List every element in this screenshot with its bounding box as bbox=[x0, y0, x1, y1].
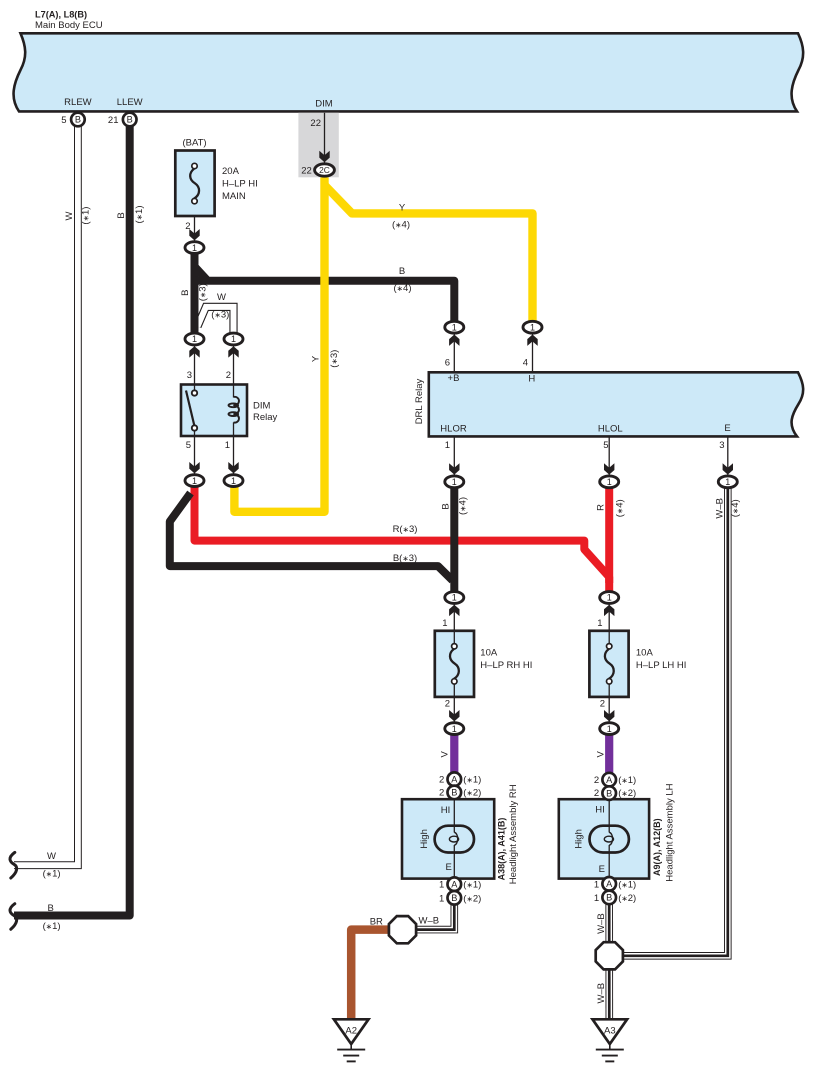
wire headlight RH internal bbox=[453, 799, 455, 832]
svg-text:W: W bbox=[64, 211, 75, 220]
svg-text:HLOL: HLOL bbox=[598, 424, 623, 435]
splice octagon RH bbox=[389, 916, 416, 943]
bulb High LH bbox=[590, 826, 629, 853]
wire RLEW stub bbox=[77, 111, 79, 120]
svg-text:Main Body ECU: Main Body ECU bbox=[35, 20, 103, 31]
svg-text:6: 6 bbox=[445, 358, 450, 369]
svg-text:H–LP LH HI: H–LP LH HI bbox=[636, 660, 687, 671]
svg-text:1: 1 bbox=[597, 618, 602, 629]
svg-text:(∗1): (∗1) bbox=[81, 207, 92, 225]
arrow into junction above +B bbox=[449, 335, 459, 346]
svg-text:B: B bbox=[127, 115, 133, 125]
svg-text:V: V bbox=[439, 750, 450, 757]
arrow into junction above DIM pin3 bbox=[189, 346, 199, 357]
svg-text:(∗3): (∗3) bbox=[329, 350, 340, 368]
svg-text:21: 21 bbox=[108, 115, 119, 126]
svg-text:B: B bbox=[180, 290, 191, 296]
svg-text:B: B bbox=[451, 788, 457, 798]
wire LLEW stub bbox=[129, 111, 131, 120]
Main Body ECU block bbox=[14, 33, 804, 111]
junction 1 below RH fuse bbox=[445, 723, 464, 735]
wire headlight LH internal bbox=[608, 799, 610, 832]
fuse 10A H-LP LH HI box bbox=[589, 631, 628, 697]
svg-text:Y: Y bbox=[399, 203, 406, 214]
junction 1 below HLOR bbox=[445, 476, 464, 488]
svg-text:MAIN: MAIN bbox=[222, 191, 246, 202]
svg-text:RLEW: RLEW bbox=[64, 97, 91, 108]
svg-text:W–B: W–B bbox=[714, 498, 725, 519]
svg-text:HI: HI bbox=[595, 805, 605, 816]
wire BR octagon to ground A2 bbox=[351, 930, 389, 1020]
svg-text:B: B bbox=[451, 893, 457, 903]
wire DRL HLOL down bbox=[608, 436, 610, 475]
svg-text:5: 5 bbox=[603, 440, 608, 451]
headlight assembly LH box bbox=[559, 799, 649, 878]
break symbol W wire bbox=[10, 852, 17, 878]
svg-text:Headlight Assembly RH: Headlight Assembly RH bbox=[508, 784, 519, 884]
svg-text:1: 1 bbox=[192, 334, 197, 344]
svg-text:E: E bbox=[599, 864, 605, 875]
arrow into junction above LH fuse bbox=[604, 605, 614, 616]
bulb High RH bbox=[435, 826, 474, 853]
wire headlight LH E stub bbox=[608, 879, 610, 902]
svg-text:1: 1 bbox=[607, 593, 612, 603]
wire LH junction to headlight bbox=[608, 735, 610, 800]
svg-text:LLEW: LLEW bbox=[117, 97, 143, 108]
wire W-B E pin to LH ground octagon bbox=[620, 489, 728, 956]
svg-text:DRL Relay: DRL Relay bbox=[414, 378, 425, 424]
svg-text:1: 1 bbox=[452, 322, 457, 332]
svg-text:A: A bbox=[606, 775, 613, 785]
arrow into junction below DIM pin1 bbox=[228, 462, 238, 473]
fuse 20A H-LP HI MAIN box bbox=[175, 151, 214, 217]
svg-text:B: B bbox=[399, 266, 405, 277]
svg-text:(∗4): (∗4) bbox=[392, 220, 410, 231]
svg-text:(∗1): (∗1) bbox=[43, 868, 61, 879]
relay DIM box bbox=[181, 385, 247, 437]
junction 1 below DIM pin1 bbox=[224, 475, 243, 487]
wire DIM pin 5 down bbox=[194, 430, 196, 474]
arrow into junction below HLOL bbox=[604, 463, 614, 474]
junction 1 above +B bbox=[445, 321, 464, 333]
svg-text:High: High bbox=[574, 829, 585, 849]
wire W RLEW down-left bbox=[14, 126, 78, 865]
svg-text:W: W bbox=[217, 292, 226, 303]
wire Y (*4) branch to H bbox=[325, 185, 533, 321]
svg-text:B(∗3): B(∗3) bbox=[393, 553, 417, 564]
wire B LLEW down-left bbox=[14, 126, 130, 916]
svg-text:1: 1 bbox=[225, 440, 230, 451]
svg-text:V: V bbox=[595, 750, 606, 757]
svg-text:B: B bbox=[606, 788, 612, 798]
wire RH fuse down bbox=[453, 681, 455, 722]
svg-text:E: E bbox=[445, 862, 451, 873]
svg-text:1: 1 bbox=[607, 477, 612, 487]
svg-text:(∗1): (∗1) bbox=[463, 775, 481, 786]
junction 1 above H bbox=[523, 321, 542, 333]
svg-text:B: B bbox=[441, 503, 452, 509]
wire junction to DRL H bbox=[532, 334, 534, 373]
svg-text:E: E bbox=[724, 423, 730, 434]
wire RH junction to headlight bbox=[453, 735, 455, 800]
svg-text:A: A bbox=[451, 774, 458, 784]
svg-text:(∗2): (∗2) bbox=[618, 893, 636, 904]
arrow into junction below DIM pin5 bbox=[189, 462, 199, 473]
svg-text:2C: 2C bbox=[319, 165, 330, 175]
svg-text:1: 1 bbox=[452, 477, 457, 487]
svg-text:(∗4): (∗4) bbox=[730, 499, 741, 517]
break symbol B wire bbox=[10, 904, 17, 930]
svg-text:R: R bbox=[595, 504, 606, 511]
wire junction to DIM pin 2 bbox=[233, 346, 235, 398]
junction 1 below DIM pin5 bbox=[185, 475, 204, 487]
wire Y main 2C to DIM pin 1 bbox=[234, 178, 324, 512]
svg-text:High: High bbox=[419, 829, 430, 849]
wire W (*3) splice to DIM pin 2 bbox=[198, 307, 234, 333]
svg-text:22: 22 bbox=[310, 118, 321, 129]
svg-text:2: 2 bbox=[594, 775, 599, 786]
svg-text:DIM: DIM bbox=[315, 99, 333, 110]
junction 1 below E bbox=[718, 476, 737, 488]
svg-text:(∗4): (∗4) bbox=[457, 497, 468, 515]
svg-text:1: 1 bbox=[442, 618, 447, 629]
svg-text:2: 2 bbox=[445, 698, 450, 709]
svg-text:H: H bbox=[528, 374, 535, 385]
wire R (*3) DIM pin5 to LH bbox=[195, 487, 610, 584]
junction 1 below HLOL bbox=[600, 476, 619, 488]
svg-text:4: 4 bbox=[523, 358, 528, 369]
svg-text:1: 1 bbox=[445, 440, 450, 451]
svg-text:W–B: W–B bbox=[419, 915, 440, 926]
wire DRL HLOR down bbox=[453, 436, 455, 475]
svg-text:B: B bbox=[606, 893, 612, 903]
wire LH fuse down bbox=[608, 681, 610, 722]
svg-text:1: 1 bbox=[725, 477, 730, 487]
wire DRL E down bbox=[727, 436, 729, 475]
DIM relay coil bbox=[229, 397, 239, 423]
wire B (*3) DIM pin5 to RH bbox=[170, 493, 453, 580]
svg-text:2: 2 bbox=[600, 698, 605, 709]
wire junction to RH fuse bbox=[453, 605, 455, 647]
chamfer at B branch bbox=[195, 267, 207, 280]
wire junction to LH fuse bbox=[608, 605, 610, 647]
arrow into junction below HLOR bbox=[449, 463, 459, 474]
wire junction to DRL +B bbox=[453, 334, 455, 373]
wire DIM pin 1 down bbox=[233, 422, 235, 474]
svg-text:10A: 10A bbox=[636, 648, 654, 659]
svg-text:(∗4): (∗4) bbox=[614, 499, 625, 517]
svg-text:1: 1 bbox=[607, 724, 612, 734]
svg-text:A9(A), A12(B): A9(A), A12(B) bbox=[652, 818, 662, 876]
svg-text:2: 2 bbox=[439, 788, 444, 799]
arrow into junction above RH fuse bbox=[449, 605, 459, 616]
arrow into 2C bbox=[319, 151, 329, 162]
svg-text:Headlight Assembly LH: Headlight Assembly LH bbox=[665, 783, 676, 881]
arrow into junction below BAT bbox=[189, 229, 199, 240]
arrow into junction below E bbox=[723, 463, 733, 474]
gray DIM connector box bbox=[298, 113, 338, 178]
arrow into junction below LH fuse bbox=[604, 710, 614, 721]
svg-text:A: A bbox=[451, 879, 458, 889]
splice octagon LH bbox=[596, 942, 623, 969]
svg-text:1: 1 bbox=[452, 724, 457, 734]
svg-text:R(∗3): R(∗3) bbox=[393, 524, 418, 535]
ground A3 bbox=[593, 1019, 628, 1061]
svg-text:B: B bbox=[116, 212, 127, 218]
svg-text:(∗1): (∗1) bbox=[134, 206, 145, 224]
wire B (*4) HLOR down bbox=[450, 489, 458, 592]
svg-text:1: 1 bbox=[192, 243, 197, 253]
wire W-B LH headlight to ground bbox=[605, 902, 613, 1020]
svg-text:B: B bbox=[75, 115, 81, 125]
wire junction to DIM pin 3 bbox=[194, 346, 196, 390]
svg-text:5: 5 bbox=[61, 115, 66, 126]
fuse 10A H-LP RH HI box bbox=[435, 631, 474, 697]
svg-text:(∗4): (∗4) bbox=[394, 283, 412, 294]
svg-text:5: 5 bbox=[186, 440, 191, 451]
svg-text:1: 1 bbox=[594, 879, 599, 890]
svg-text:(∗1): (∗1) bbox=[618, 879, 636, 890]
svg-text:L7(A), L8(B): L7(A), L8(B) bbox=[35, 10, 87, 20]
svg-text:H–LP RH HI: H–LP RH HI bbox=[480, 660, 532, 671]
svg-text:W–B: W–B bbox=[596, 983, 607, 1004]
fuse symbol LH bbox=[605, 644, 614, 685]
svg-text:(∗3): (∗3) bbox=[211, 309, 229, 320]
svg-text:(∗1): (∗1) bbox=[463, 880, 481, 891]
arrow into junction above H bbox=[527, 335, 537, 346]
fuse symbol (BAT) bbox=[190, 163, 199, 204]
wire R (*4) HLOL down bbox=[605, 489, 613, 592]
svg-text:2: 2 bbox=[226, 370, 231, 381]
svg-text:1: 1 bbox=[594, 893, 599, 904]
junction 1 above DIM pin2 bbox=[224, 333, 243, 345]
svg-text:Relay: Relay bbox=[253, 412, 278, 423]
svg-text:HI: HI bbox=[441, 805, 451, 816]
svg-text:W: W bbox=[47, 851, 56, 862]
DRL Relay block bbox=[429, 372, 803, 436]
svg-text:22: 22 bbox=[301, 166, 312, 177]
svg-text:3: 3 bbox=[719, 440, 724, 451]
svg-text:10A: 10A bbox=[480, 648, 498, 659]
svg-text:1: 1 bbox=[439, 880, 444, 891]
svg-text:(∗1): (∗1) bbox=[43, 921, 61, 932]
svg-text:(∗1): (∗1) bbox=[618, 775, 636, 786]
svg-text:(BAT): (BAT) bbox=[182, 138, 206, 149]
svg-text:1: 1 bbox=[439, 893, 444, 904]
svg-text:Y: Y bbox=[310, 355, 321, 362]
wire V LH bbox=[605, 735, 613, 772]
wire B BAT junction down bbox=[191, 254, 199, 333]
svg-text:A: A bbox=[606, 879, 613, 889]
junction 1 above DIM pin3 bbox=[185, 333, 204, 345]
junction 1 above LH fuse bbox=[600, 592, 619, 604]
junction 1 above RH fuse bbox=[445, 592, 464, 604]
svg-text:A2: A2 bbox=[345, 1025, 357, 1036]
svg-text:1: 1 bbox=[231, 334, 236, 344]
svg-text:W–B: W–B bbox=[596, 913, 607, 934]
ground A2 bbox=[334, 1019, 369, 1061]
wire W-B RH headlight to octagon bbox=[405, 902, 454, 930]
junction 1 below LH fuse bbox=[600, 723, 619, 735]
wire headlight RH E stub bbox=[453, 879, 455, 902]
headlight assembly RH box bbox=[402, 799, 494, 878]
svg-text:2: 2 bbox=[594, 788, 599, 799]
svg-text:+B: +B bbox=[448, 373, 460, 384]
svg-text:1: 1 bbox=[530, 322, 535, 332]
svg-text:A3: A3 bbox=[604, 1025, 616, 1036]
svg-text:20A: 20A bbox=[222, 166, 240, 177]
fuse symbol RH bbox=[450, 644, 459, 685]
svg-text:(∗2): (∗2) bbox=[463, 893, 481, 904]
svg-text:1: 1 bbox=[452, 593, 457, 603]
wire DIM pin 22 to 2C bbox=[324, 113, 326, 163]
svg-text:BR: BR bbox=[370, 917, 383, 928]
wire BAT fuse to junction bbox=[194, 216, 196, 241]
svg-text:(∗2): (∗2) bbox=[463, 788, 481, 799]
svg-text:(∗2): (∗2) bbox=[618, 788, 636, 799]
svg-text:HLOR: HLOR bbox=[440, 424, 467, 435]
arrow into junction above DIM pin2 bbox=[228, 346, 238, 357]
svg-text:(∗3): (∗3) bbox=[198, 283, 209, 301]
arrow into junction below RH fuse bbox=[449, 710, 459, 721]
DIM relay switch bbox=[186, 390, 197, 430]
svg-text:2: 2 bbox=[439, 775, 444, 786]
svg-text:DIM: DIM bbox=[253, 401, 271, 412]
svg-text:A38(A), A41(B): A38(A), A41(B) bbox=[497, 818, 507, 881]
junction 1 below BAT fuse bbox=[185, 242, 204, 254]
svg-text:H–LP HI: H–LP HI bbox=[222, 179, 258, 190]
svg-text:B: B bbox=[48, 903, 54, 914]
svg-text:3: 3 bbox=[187, 370, 192, 381]
svg-text:1: 1 bbox=[192, 476, 197, 486]
wire V RH bbox=[450, 735, 458, 772]
wire B (*4) branch to +B bbox=[195, 281, 455, 321]
svg-text:1: 1 bbox=[231, 476, 236, 486]
